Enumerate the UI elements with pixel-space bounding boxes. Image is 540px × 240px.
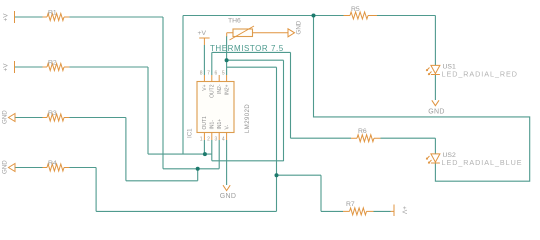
- svg-text:LM2902D: LM2902D: [245, 104, 251, 133]
- svg-text:GND: GND: [2, 110, 9, 124]
- svg-text:+V: +V: [198, 30, 207, 37]
- svg-text:IC1: IC1: [187, 128, 194, 138]
- svg-text:GND: GND: [220, 193, 236, 200]
- svg-text:TH6: TH6: [228, 18, 241, 25]
- svg-text:+V: +V: [3, 13, 10, 22]
- svg-text:IN1-: IN1-: [210, 120, 216, 130]
- svg-text:V+: V+: [202, 84, 208, 90]
- svg-text:GND: GND: [428, 109, 444, 116]
- svg-text:OUT1: OUT1: [202, 116, 208, 130]
- svg-text:THERMISTOR 7.5: THERMISTOR 7.5: [210, 44, 284, 53]
- svg-text:R4: R4: [48, 160, 57, 167]
- svg-text:IN2+: IN2+: [224, 84, 230, 95]
- svg-text:R2: R2: [48, 60, 57, 67]
- svg-text:R6: R6: [358, 128, 367, 135]
- svg-text:8: 8: [200, 71, 203, 77]
- svg-text:R3: R3: [48, 110, 57, 117]
- svg-text:R7: R7: [346, 201, 355, 208]
- svg-text:IN1+: IN1+: [217, 119, 223, 130]
- svg-text:4: 4: [222, 137, 225, 143]
- svg-text:1: 1: [200, 137, 203, 143]
- svg-text:R1: R1: [48, 10, 57, 17]
- svg-text:3: 3: [215, 137, 218, 143]
- svg-text:7: 7: [207, 71, 210, 77]
- svg-text:2: 2: [207, 137, 210, 143]
- svg-text:LED_RADIAL_BLUE: LED_RADIAL_BLUE: [442, 158, 523, 167]
- svg-text:6: 6: [215, 71, 218, 77]
- svg-text:V-: V-: [224, 124, 230, 129]
- svg-text:GND: GND: [296, 20, 303, 34]
- svg-text:R5: R5: [351, 6, 360, 13]
- svg-text:IN2-: IN2-: [217, 84, 223, 94]
- svg-text:GND: GND: [2, 160, 9, 174]
- svg-text:+V: +V: [401, 206, 408, 215]
- svg-text:+V: +V: [3, 63, 10, 72]
- svg-text:OUT2: OUT2: [210, 84, 216, 98]
- svg-text:5: 5: [222, 71, 225, 77]
- svg-text:LED_RADIAL_RED: LED_RADIAL_RED: [442, 70, 518, 79]
